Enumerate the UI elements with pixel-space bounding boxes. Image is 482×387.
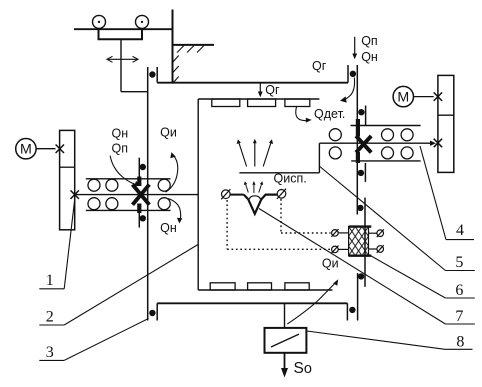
right column inlet cross: [434, 139, 442, 148]
motor M right: [393, 86, 413, 106]
chamber right wall segment: [318, 143, 320, 173]
top duct: [157, 82, 348, 84]
balance bracket: [99, 29, 143, 39]
left valve upper stub: [138, 158, 140, 177]
pointer 6: [369, 255, 446, 299]
label 8: [445, 334, 473, 351]
heater box: [349, 227, 372, 256]
top-right inflow curved arrow: [340, 78, 355, 103]
heater terminal lower-right: [369, 245, 384, 253]
svg-text:Qг: Qг: [312, 59, 327, 73]
right column: [438, 75, 454, 172]
left valve lower stub: [138, 207, 140, 228]
right pipe top stub: [347, 65, 349, 83]
svg-text:Qисп.: Qисп.: [274, 171, 307, 185]
heater terminal upper-left: [331, 229, 348, 237]
svg-text:2: 2: [46, 309, 54, 326]
wall hatch ticks top: [177, 46, 204, 53]
motor valve cross right: [434, 92, 442, 101]
bottom slot 3: [285, 283, 309, 290]
svg-text:6: 6: [455, 282, 463, 299]
left channel top line: [86, 178, 171, 180]
filter diagonal: [271, 334, 299, 347]
label 6: [445, 282, 474, 299]
bottom duct right stub: [346, 303, 348, 320]
left channel ball D: [106, 198, 118, 210]
label 3: [39, 344, 64, 361]
thermal block dotted right vertical: [280, 199, 282, 233]
right top junction dot: [350, 71, 356, 77]
right channel mid line with arrow: [319, 141, 436, 146]
pulley left: [93, 15, 106, 28]
pointer 3: [64, 319, 148, 361]
svg-text:M: M: [20, 142, 32, 158]
left column divider: [60, 166, 75, 168]
left column: [60, 130, 75, 229]
shelf: [239, 172, 319, 174]
ceiling line: [74, 28, 173, 30]
svg-text:Qн: Qн: [112, 127, 129, 141]
bottom duct left stub: [156, 303, 158, 320]
pointer 5: [320, 167, 446, 271]
evaporator left terminal wire: [230, 194, 244, 196]
right stub 2: [365, 106, 367, 126]
evaporator fan arrow left: [237, 139, 247, 166]
svg-text:Qг: Qг: [265, 83, 280, 97]
svg-text:Qп: Qп: [361, 34, 378, 48]
pulley right: [136, 15, 149, 28]
motor wire left: [36, 148, 55, 150]
valve X right: [356, 136, 371, 153]
svg-text:Qдет.: Qдет.: [314, 107, 345, 121]
left channel ball C: [88, 198, 100, 210]
right junction dot 2: [358, 109, 364, 115]
top-right inlet arrow: [352, 37, 357, 60]
thermal block dotted mid horizontal: [281, 232, 331, 234]
evaporator cup: [244, 195, 277, 214]
left channel ball B: [106, 179, 118, 191]
label 1: [39, 272, 64, 289]
right pipe lower: [357, 273, 359, 320]
pointer 2: [64, 244, 198, 325]
evaporator dome: [249, 196, 260, 199]
top-left nozzle stub: [156, 67, 158, 83]
left junction dot upper: [140, 164, 146, 170]
svg-text:3: 3: [46, 344, 54, 361]
evaporator fan arrow center: [253, 139, 257, 167]
motor valve cross left: [56, 145, 64, 154]
evaporator fan arrow right: [263, 139, 273, 166]
top slot 3: [285, 99, 310, 107]
svg-text:1: 1: [46, 272, 54, 289]
right pipe heater section: [364, 198, 366, 287]
Qi outflow curved arrow: [287, 279, 338, 324]
thermal block dotted bottom horizontal: [227, 248, 331, 250]
right channel ball A: [329, 129, 341, 141]
top-left junction dot: [149, 71, 155, 77]
right column divider: [438, 114, 454, 116]
motor wire right: [414, 96, 434, 98]
evaporator left terminal: [221, 189, 230, 199]
bottom duct: [157, 302, 347, 304]
wall shelf line: [173, 44, 215, 46]
svg-text:M: M: [397, 90, 409, 106]
label 4: [446, 222, 474, 240]
left column outlet cross: [71, 190, 79, 199]
outlet arrow So: [281, 353, 288, 378]
svg-text:8: 8: [456, 334, 464, 351]
right channel bottom line: [351, 160, 420, 162]
Qp curved arrow into valve: [110, 156, 140, 187]
wall hatch ticks side: [173, 56, 179, 84]
label 5: [445, 254, 474, 271]
left channel ball E: [158, 179, 170, 191]
left pipe: [147, 67, 149, 321]
filter box: [265, 328, 307, 353]
left junction dot lower: [140, 215, 146, 221]
pointer 1: [64, 200, 75, 289]
chamber left wall: [197, 99, 199, 290]
vapor arrow right: [259, 181, 263, 192]
svg-text:Sо: Sо: [294, 360, 312, 377]
svg-text:Qн: Qн: [361, 50, 378, 64]
right junction dot 5: [358, 273, 364, 279]
balance rod: [120, 39, 122, 91]
left channel mid line: [75, 194, 199, 196]
vapor arrow center: [252, 181, 255, 193]
left channel ball A: [88, 179, 100, 191]
valve X left: [133, 185, 150, 205]
right junction dot 4: [357, 205, 363, 211]
thermal block dotted left vertical: [226, 200, 228, 249]
svg-text:Qи: Qи: [322, 257, 339, 271]
right valve upper bar: [356, 119, 360, 137]
label 7: [445, 308, 474, 325]
Qdet curved arrow: [296, 106, 312, 122]
svg-text:7: 7: [455, 308, 463, 325]
bottom slot 1: [210, 283, 235, 290]
right channel ball E: [382, 147, 394, 159]
svg-text:4: 4: [456, 222, 464, 239]
left valve lower bar: [137, 204, 141, 214]
top slot 2: [248, 99, 276, 107]
wall vertical: [172, 10, 174, 83]
chamber top wall: [198, 98, 319, 100]
filter box inlet: [284, 303, 286, 328]
vapor arrow left: [244, 181, 248, 192]
svg-text:Qн: Qн: [160, 221, 177, 235]
motor M left: [16, 139, 36, 159]
svg-text:Qи: Qи: [160, 125, 177, 139]
left channel ball F: [158, 198, 170, 210]
bottom-right junction dot: [349, 307, 355, 313]
right channel ball D: [401, 129, 413, 141]
Qi curved arrow: [166, 152, 178, 192]
rod elbow wire: [121, 91, 148, 93]
right channel top line: [351, 125, 421, 127]
pointer 8: [307, 331, 445, 349]
pointer 7: [259, 209, 445, 325]
Qn curved arrow lower: [168, 199, 182, 224]
svg-text:5: 5: [455, 254, 463, 271]
label 2: [39, 309, 64, 326]
heater terminal upper-right: [369, 229, 384, 237]
evaporator right terminal: [277, 189, 286, 199]
top slot 1: [212, 99, 240, 107]
chamber bottom wall: [198, 289, 332, 291]
double arrow: [107, 56, 138, 62]
right channel ball F: [401, 147, 413, 159]
svg-text:Qп: Qп: [112, 141, 129, 155]
right channel ball C: [382, 129, 394, 141]
right stub 3: [364, 163, 366, 182]
left channel bottom line: [86, 209, 171, 211]
Qg arrow into chamber: [258, 84, 263, 98]
right channel ball B: [329, 147, 341, 159]
right pipe upper: [356, 65, 358, 215]
heater terminal lower-left: [331, 246, 348, 254]
left valve upper bar: [137, 177, 141, 187]
right junction dot 3: [358, 170, 364, 176]
bottom slot 2: [248, 283, 272, 290]
right valve lower bar: [356, 152, 360, 163]
pointer 4: [420, 146, 446, 240]
bottom-left junction dot: [149, 310, 155, 316]
